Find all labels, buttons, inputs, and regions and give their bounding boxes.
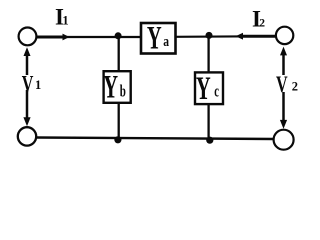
label Yb	[103, 69, 126, 105]
admittance box Ya	[141, 23, 176, 54]
label V1	[22, 72, 41, 97]
admittance box Yb	[104, 71, 131, 103]
wire I1 arrow shaft (thick)	[37, 36, 64, 39]
V1 arrow up	[26, 53, 29, 75]
admittance box Yc	[195, 72, 223, 104]
wire bottom	[37, 138, 275, 140]
arrowhead I1	[63, 34, 70, 41]
wire shunt branch Yb lower	[118, 103, 120, 139]
wire I2 arrow shaft (thick)	[242, 35, 275, 38]
svg-text:V: V	[22, 72, 34, 97]
terminal circle top-right	[276, 27, 293, 44]
terminal circle top-left	[19, 28, 37, 46]
arrowhead I2	[236, 33, 244, 40]
svg-text:1: 1	[35, 78, 41, 92]
junction node bottom-right	[206, 137, 213, 144]
wire shunt branch Yc lower	[207, 105, 209, 139]
label Yc	[196, 70, 219, 106]
label Ya	[147, 20, 170, 56]
svg-text:b: b	[120, 82, 126, 101]
arrowhead V1 up	[24, 47, 31, 56]
label V2	[276, 72, 298, 97]
svg-text:Y: Y	[103, 69, 118, 105]
terminal circle bottom-left	[18, 127, 36, 145]
V2 arrow down	[282, 92, 285, 121]
svg-text:Y: Y	[147, 20, 162, 56]
arrowhead V2 up	[280, 47, 287, 56]
terminal circle bottom-right	[274, 130, 294, 150]
junction node top-left	[115, 32, 122, 39]
svg-text:c: c	[214, 82, 219, 101]
label I2	[252, 7, 265, 32]
wire shunt branch Yc upper	[207, 37, 209, 72]
junction node bottom-left	[114, 136, 121, 143]
wire shunt branch Yb upper	[118, 37, 120, 71]
arrowhead V1 down	[23, 117, 30, 126]
svg-text:2: 2	[259, 18, 265, 30]
svg-text:Y: Y	[196, 70, 211, 106]
wire top-right segment	[175, 35, 276, 38]
arrowhead V2 down	[280, 120, 287, 129]
junction node top-right	[206, 32, 213, 39]
V2 arrow up	[282, 53, 285, 75]
V1 arrow down	[26, 90, 29, 119]
wire top-left segment	[36, 36, 141, 38]
svg-text:1: 1	[62, 14, 68, 28]
svg-text:2: 2	[292, 80, 298, 94]
svg-text:V: V	[276, 72, 288, 97]
label I1	[55, 5, 69, 30]
svg-text:a: a	[163, 33, 169, 50]
